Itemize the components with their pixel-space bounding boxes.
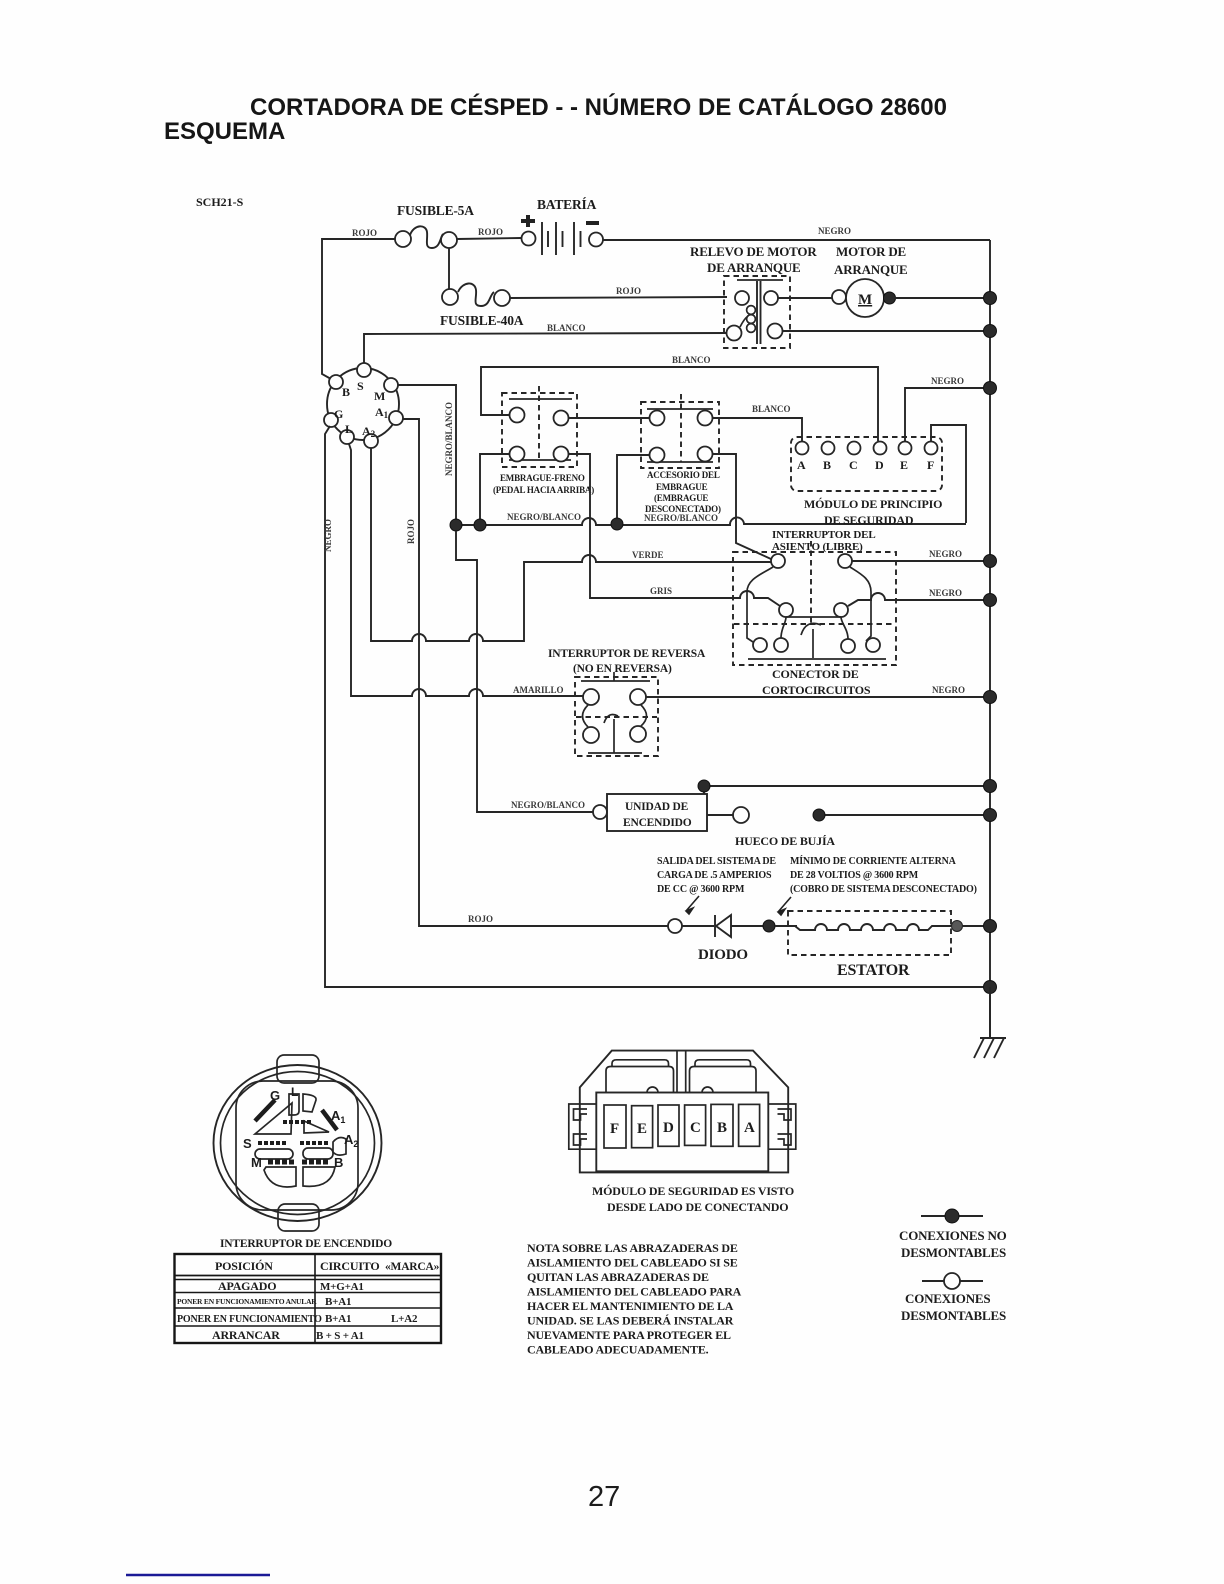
fuse F1 FUSIBLE-5A — [395, 203, 474, 248]
svg-text:DESMONTABLES: DESMONTABLES — [901, 1245, 1006, 1260]
slot left triangle — [255, 1103, 292, 1134]
svg-text:ESTATOR: ESTATOR — [837, 962, 910, 979]
svg-text:MOTOR DE: MOTOR DE — [836, 244, 906, 259]
svg-text:27: 27 — [588, 1481, 620, 1513]
contact bar S row — [258, 1141, 287, 1145]
junction dot spark side — [813, 809, 825, 821]
svg-text:A: A — [744, 1120, 755, 1136]
wire spark side to bus — [819, 814, 990, 816]
svg-text:MÍNIMO DE CORRIENTE ALTERNA: MÍNIMO DE CORRIENTE ALTERNA — [790, 855, 957, 867]
svg-text:ROJO: ROJO — [478, 227, 503, 237]
svg-text:SALIDA DEL SISTEMA DE: SALIDA DEL SISTEMA DE — [657, 856, 776, 867]
svg-text:NUEVAMENTE PARA PROTEGER EL: NUEVAMENTE PARA PROTEGER EL — [527, 1328, 731, 1342]
svg-text:EMBRAGUE: EMBRAGUE — [656, 482, 708, 492]
svg-text:L: L — [345, 422, 353, 436]
ignition terminal M — [384, 378, 398, 392]
ignition terminal A2 — [364, 434, 378, 448]
pin cavity D — [658, 1105, 679, 1146]
svg-text:(EMBRAGUE: (EMBRAGUE — [654, 493, 708, 503]
contact bar center — [283, 1120, 312, 1124]
junction dot bus reverse line — [984, 691, 997, 704]
wire AMARILLO ignition L to reverse switch — [349, 444, 583, 696]
wire ignition unit top to bus — [704, 786, 990, 794]
svg-text:FUSIBLE-40A: FUSIBLE-40A — [440, 313, 524, 328]
wire module pin E to bus (NEGRO) — [905, 388, 990, 441]
relay K1 RELEVO DE MOTOR DE ARRANQUE — [690, 244, 817, 348]
junction dot bus pin E — [984, 382, 997, 395]
legend permanent connection symbol — [899, 1209, 1007, 1260]
svg-text:ROJO: ROJO — [616, 286, 641, 296]
svg-text:NEGRO: NEGRO — [929, 549, 962, 559]
svg-text:A: A — [797, 458, 806, 472]
svg-text:VERDE: VERDE — [632, 550, 664, 560]
svg-text:B: B — [342, 385, 350, 399]
contact bar M-B row — [268, 1160, 296, 1165]
motor M1 MOTOR DE ARRANQUE — [778, 244, 990, 317]
clutch-brake switch SW2 EMBRAGUE-FRENO — [493, 386, 594, 495]
wire NEGRO ignition G to chassis bottom rail — [325, 426, 990, 987]
svg-text:DE SEGURIDAD: DE SEGURIDAD — [824, 513, 914, 527]
decorative blue rule — [126, 1574, 270, 1577]
svg-text:ROJO: ROJO — [352, 228, 377, 238]
wire BLANCO accessory TR to module pin A — [713, 418, 802, 441]
svg-text:DE ARRANQUE: DE ARRANQUE — [707, 260, 801, 275]
diode D1 — [682, 915, 763, 963]
svg-text:F: F — [927, 458, 934, 472]
junction dot bus seat mid — [984, 594, 997, 607]
svg-text:AISLAMIENTO DEL CABLEADO SI: AISLAMIENTO DEL CABLEADO SI SE — [527, 1256, 738, 1270]
junction dot bus stator — [984, 920, 997, 933]
side clip right — [768, 1104, 796, 1149]
svg-text:BLANCO: BLANCO — [672, 355, 711, 365]
svg-text:AMARILLO: AMARILLO — [513, 685, 564, 695]
svg-text:CORTADORA DE CÉSPED - - NÚMER: CORTADORA DE CÉSPED - - NÚMERO DE CATÁLO… — [250, 93, 947, 121]
wire clutch TR to accessory TL — [569, 417, 650, 419]
svg-text:PONER EN FUNCIONAMIENTO ANULAR: PONER EN FUNCIONAMIENTO ANULAR — [177, 1297, 317, 1306]
svg-text:L: L — [291, 1085, 298, 1099]
wire ignition A2 to seat switch (VERDE) — [371, 448, 771, 641]
svg-text:B+A1: B+A1 — [325, 1313, 351, 1325]
pin cavity A — [739, 1104, 760, 1146]
svg-text:NEGRO/BLANCO: NEGRO/BLANCO — [507, 512, 581, 522]
slot right wedge — [304, 1121, 329, 1133]
svg-text:D: D — [875, 458, 884, 472]
svg-text:HACER EL MANTENIMIENTO DE LA: HACER EL MANTENIMIENTO DE LA — [527, 1299, 734, 1313]
junction dot ignition unit top — [698, 780, 710, 792]
svg-text:APAGADO: APAGADO — [218, 1279, 276, 1293]
notches on body top — [647, 1087, 658, 1093]
svg-text:B: B — [717, 1120, 727, 1136]
slot bottom right pie — [303, 1167, 335, 1186]
svg-text:CARGA DE .5 AMPERIOS: CARGA DE .5 AMPERIOS — [657, 870, 772, 881]
svg-text:DESDE LADO DE CONECTANDO: DESDE LADO DE CONECTANDO — [607, 1200, 788, 1214]
svg-text:M: M — [251, 1155, 262, 1170]
svg-text:B + S + A1: B + S + A1 — [316, 1330, 364, 1342]
wire ROJO ignition A1 down to charge line — [403, 419, 668, 926]
svg-text:ROJO: ROJO — [468, 914, 493, 924]
key slot G pointer — [255, 1100, 275, 1121]
svg-text:NEGRO: NEGRO — [931, 376, 964, 386]
wire ROJO fuse F1 to node B (left drop) — [322, 239, 395, 379]
svg-text:NEGRO: NEGRO — [929, 588, 962, 598]
svg-text:M+G+A1: M+G+A1 — [320, 1281, 364, 1293]
junction dot bus spark line — [984, 809, 997, 822]
svg-text:INTERRUPTOR DE REVERSA: INTERRUPTOR DE REVERSA — [548, 648, 706, 660]
battery BT1 — [521, 197, 603, 255]
legend detachable connection symbol — [901, 1273, 1006, 1323]
ignition terminal G — [324, 413, 338, 427]
svg-text:ROJO: ROJO — [406, 519, 416, 544]
svg-text:INTERRUPTOR DEL: INTERRUPTOR DEL — [772, 529, 875, 541]
note text charge output — [657, 856, 776, 895]
svg-text:POSICIÓN: POSICIÓN — [215, 1259, 273, 1273]
spark plug gap HUECO DE BUJIA — [707, 807, 835, 848]
svg-text:A2: A2 — [344, 1132, 358, 1149]
wire NEGRO/BLANCO kill line horizontal — [456, 517, 966, 525]
ignition unit U2 UNIDAD DE ENCENDIDO — [593, 794, 707, 831]
pin cavity B — [711, 1104, 733, 1146]
svg-text:S: S — [357, 379, 364, 393]
arrow to charge circle — [686, 896, 699, 914]
svg-text:NEGRO/BLANCO: NEGRO/BLANCO — [644, 513, 718, 523]
svg-text:ACCESORIO DEL: ACCESORIO DEL — [647, 470, 720, 480]
svg-text:ARRANQUE: ARRANQUE — [834, 262, 908, 277]
connector dot stator right (gray) — [952, 921, 963, 932]
svg-text:ENCENDIDO: ENCENDIDO — [623, 817, 692, 829]
arrow to stator dot — [778, 897, 791, 915]
svg-text:ESQUEMA: ESQUEMA — [164, 118, 285, 145]
wire clutch BR down to GRIS seat feed — [569, 454, 780, 606]
junction dot bus ignition unit — [984, 780, 997, 793]
svg-text:A1: A1 — [331, 1108, 345, 1125]
svg-text:M: M — [858, 292, 872, 308]
note text minimum alternating current — [790, 855, 977, 895]
svg-text:HUECO DE BUJÍA: HUECO DE BUJÍA — [735, 834, 835, 848]
svg-text:F: F — [610, 1121, 619, 1137]
ignition switch face detail — [214, 1055, 382, 1231]
svg-text:G: G — [334, 407, 343, 421]
svg-text:UNIDAD DE: UNIDAD DE — [625, 801, 689, 813]
svg-text:M: M — [374, 389, 385, 403]
svg-text:BLANCO: BLANCO — [547, 323, 586, 333]
wire ROJO fuse F2 to relay K1 — [510, 297, 727, 298]
wire link fuse F1 to fuse F2 — [448, 248, 450, 289]
svg-text:INTERRUPTOR DE ENCENDIDO: INTERRUPTOR DE ENCENDIDO — [220, 1238, 392, 1250]
wire accessory BL to kill line junction — [617, 455, 650, 518]
svg-text:NEGRO: NEGRO — [932, 685, 965, 695]
svg-text:RELEVO DE MOTOR: RELEVO DE MOTOR — [690, 244, 817, 259]
svg-text:B: B — [334, 1155, 343, 1170]
ignition terminal B — [329, 375, 343, 389]
wire seat switch right mid to bus (NEGRO) — [848, 593, 990, 606]
svg-text:BLANCO: BLANCO — [752, 404, 791, 414]
svg-text:GRIS: GRIS — [650, 586, 672, 596]
right bus vertical — [989, 240, 991, 1038]
svg-text:(COBRO DE SISTEMA DESCONECTADO: (COBRO DE SISTEMA DESCONECTADO) — [790, 884, 977, 895]
slot A2 flag — [333, 1138, 346, 1156]
wire accessory BR diagonal to seat switch — [712, 454, 771, 559]
svg-text:NEGRO: NEGRO — [323, 519, 333, 552]
slot mid right — [303, 1148, 333, 1159]
svg-text:B: B — [823, 458, 831, 472]
wire seat switch TR to bus (NEGRO) — [852, 560, 990, 562]
slot mid left — [255, 1149, 293, 1159]
svg-text:«MARCA»: «MARCA» — [385, 1261, 440, 1273]
svg-text:DIODO: DIODO — [698, 947, 748, 963]
wire kill line down to ignition unit — [456, 531, 593, 812]
junction dot bus bottom rail — [984, 981, 997, 994]
svg-text:NEGRO/BLANCO: NEGRO/BLANCO — [511, 800, 585, 810]
safety module U1 MODULO DE PRINCIPIO DE SEGURIDAD — [791, 437, 942, 527]
wire clutch BL down to kill line junction — [480, 454, 510, 519]
svg-text:E: E — [637, 1121, 647, 1137]
note text NOTA block — [527, 1241, 742, 1357]
ignition terminal L — [340, 430, 354, 444]
svg-text:CONECTOR DE: CONECTOR DE — [772, 667, 859, 681]
svg-text:UNIDAD. SE LAS DEBERÁ INSTALAR: UNIDAD. SE LAS DEBERÁ INSTALAR — [527, 1314, 734, 1328]
svg-text:C: C — [690, 1120, 701, 1136]
wire module pin F return to kill line — [931, 425, 966, 523]
svg-text:S: S — [243, 1136, 252, 1151]
svg-text:C: C — [849, 458, 858, 472]
svg-text:CIRCUITO: CIRCUITO — [320, 1259, 380, 1273]
slot top center — [289, 1094, 299, 1115]
wire bus to ground — [989, 987, 991, 1038]
svg-text:FUSIBLE-5A: FUSIBLE-5A — [397, 203, 474, 218]
ignition switch SW1 (schematic circle) — [327, 368, 399, 440]
svg-text:B+A1: B+A1 — [325, 1296, 351, 1308]
svg-text:CONEXIONES NO: CONEXIONES NO — [899, 1228, 1007, 1243]
svg-text:ARRANCAR: ARRANCAR — [212, 1328, 280, 1342]
stator L1 ESTATOR — [775, 911, 951, 979]
svg-text:DE 28 VOLTIOS @ 3600 RPM: DE 28 VOLTIOS @ 3600 RPM — [790, 870, 919, 881]
wire stator to bus — [963, 925, 990, 927]
junction dot bus-relay — [984, 325, 997, 338]
svg-text:BATERÍA: BATERÍA — [537, 197, 597, 212]
svg-text:E: E — [900, 458, 908, 472]
junction dot bus seat top — [984, 555, 997, 568]
wire BLANCO top run to module pin D — [481, 367, 878, 441]
svg-text:L+A2: L+A2 — [391, 1313, 418, 1325]
key slot A1 pointer — [322, 1110, 337, 1130]
svg-text:NEGRO/BLANCO: NEGRO/BLANCO — [444, 402, 454, 476]
wire NEGRO/BLANCO ignition M down to kill line — [398, 385, 456, 519]
ignition switch table — [175, 1254, 442, 1343]
safety module connector face detail — [569, 1051, 796, 1173]
slot bottom left pie — [264, 1167, 296, 1187]
wire reverse switch to bus (NEGRO) — [646, 696, 990, 698]
node charge output circle — [668, 919, 682, 933]
svg-text:D: D — [663, 1120, 674, 1136]
svg-text:QUITAN LAS ABRAZADERAS DE: QUITAN LAS ABRAZADERAS DE — [527, 1270, 709, 1284]
svg-text:A2: A2 — [362, 424, 376, 439]
clutch accessory switch SW3 ACCESORIO — [641, 394, 721, 514]
ignition terminal S — [357, 363, 371, 377]
svg-text:AISLAMIENTO DEL CABLEADO PARA: AISLAMIENTO DEL CABLEADO PARA — [527, 1285, 742, 1299]
svg-text:CONEXIONES: CONEXIONES — [905, 1291, 990, 1306]
svg-text:EMBRAGUE-FRENO: EMBRAGUE-FRENO — [500, 473, 585, 483]
svg-text:DESMONTABLES: DESMONTABLES — [901, 1308, 1006, 1323]
connector top tab right — [690, 1067, 757, 1093]
junction dot stator left — [763, 920, 775, 932]
svg-text:CORTOCIRCUITOS: CORTOCIRCUITOS — [762, 683, 871, 697]
svg-text:MÓDULO DE SEGURIDAD ES VISTO: MÓDULO DE SEGURIDAD ES VISTO — [592, 1184, 794, 1198]
junction dot kill line at clutch drop — [474, 519, 486, 531]
svg-text:SCH21-S: SCH21-S — [196, 195, 244, 209]
pin cavity F — [604, 1105, 626, 1148]
junction dot bus-motor — [984, 292, 997, 305]
svg-text:(NO EN REVERSA): (NO EN REVERSA) — [573, 663, 672, 675]
pin cavity E — [632, 1106, 653, 1148]
wire relay to bus (coil return) — [782, 330, 990, 332]
svg-text:CABLEADO ADECUADAMENTE.: CABLEADO ADECUADAMENTE. — [527, 1343, 709, 1357]
svg-text:NEGRO: NEGRO — [818, 226, 851, 236]
ignition terminal A1 — [389, 411, 403, 425]
fuse F2 FUSIBLE-40A — [440, 283, 524, 328]
side clip left — [569, 1104, 597, 1149]
svg-text:DE CC @ 3600 RPM: DE CC @ 3600 RPM — [657, 884, 745, 895]
junction dot kill line at M drop — [450, 519, 462, 531]
wire ROJO fuse F1 to battery — [457, 238, 521, 239]
svg-text:PONER EN FUNCIONAMIENTO: PONER EN FUNCIONAMIENTO — [177, 1314, 322, 1325]
pin cavity C — [685, 1105, 706, 1145]
slot top right wedge — [303, 1094, 316, 1112]
ground symbol — [974, 1038, 1006, 1058]
svg-text:MÓDULO DE PRINCIPIO: MÓDULO DE PRINCIPIO — [804, 497, 942, 511]
svg-text:G: G — [270, 1088, 280, 1103]
svg-text:A1: A1 — [375, 405, 389, 420]
connector top tab left — [606, 1067, 674, 1093]
reverse switch SW5 INTERRUPTOR DE REVERSA — [548, 648, 706, 756]
seat switch SW4 INTERRUPTOR DEL ASIENTO — [733, 529, 896, 697]
wire BLANCO ignition S to relay coil — [364, 333, 727, 364]
svg-text:NOTA SOBRE LAS ABRAZADERAS DE: NOTA SOBRE LAS ABRAZADERAS DE — [527, 1241, 738, 1255]
svg-text:(PEDAL HACIA ARRIBA): (PEDAL HACIA ARRIBA) — [493, 485, 594, 495]
junction dot kill line at accessory drop — [611, 518, 623, 530]
wire NEGRO battery to right bus — [603, 239, 990, 241]
